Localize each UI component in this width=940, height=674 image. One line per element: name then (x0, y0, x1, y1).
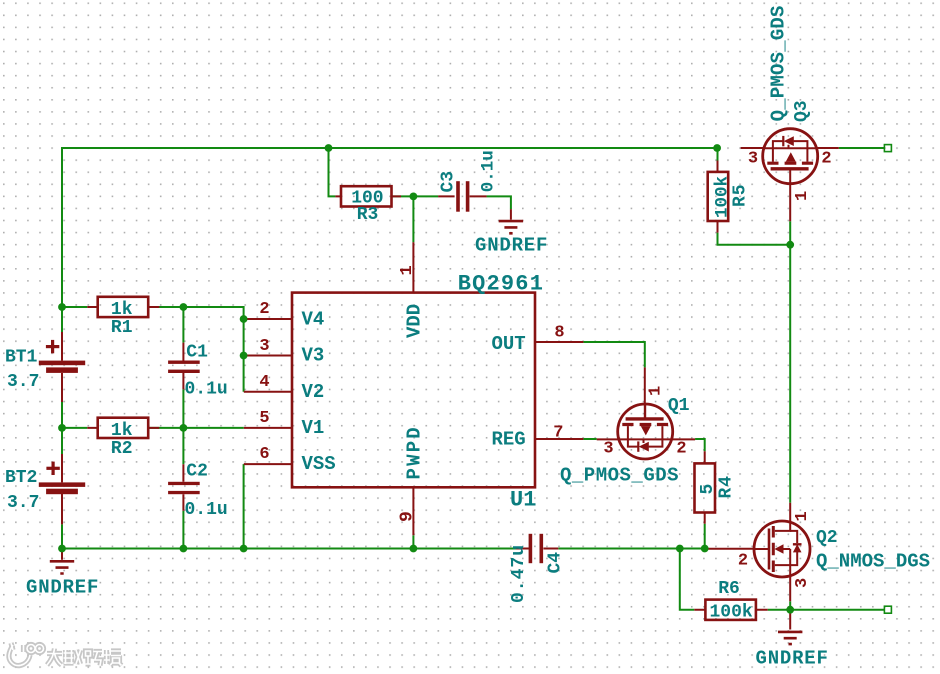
svg-text:100k: 100k (713, 176, 733, 218)
svg-text:1k: 1k (111, 421, 133, 441)
svg-text:V1: V1 (302, 417, 325, 439)
svg-text:1: 1 (793, 191, 812, 201)
svg-text:8: 8 (554, 324, 564, 343)
svg-text:V3: V3 (302, 345, 325, 367)
svg-text:5: 5 (259, 409, 269, 428)
svg-text:3.7: 3.7 (7, 493, 39, 513)
svg-text:C3: C3 (439, 171, 459, 193)
svg-text:Q1: Q1 (668, 396, 690, 416)
svg-text:4: 4 (259, 373, 269, 392)
svg-text:100k: 100k (710, 603, 753, 623)
svg-text:VSS: VSS (302, 453, 336, 475)
svg-text:Q3: Q3 (792, 100, 812, 122)
svg-text:VDD: VDD (404, 304, 426, 338)
svg-text:9: 9 (398, 511, 418, 522)
svg-text:PWPD: PWPD (404, 425, 426, 479)
svg-text:1: 1 (793, 511, 812, 521)
svg-text:0.1u: 0.1u (479, 150, 499, 192)
svg-text:R6: R6 (718, 579, 740, 599)
svg-text:R2: R2 (111, 439, 133, 459)
svg-text:2: 2 (821, 149, 831, 168)
svg-text:REG: REG (492, 429, 526, 451)
svg-text:Q_PMOS_GDS: Q_PMOS_GDS (560, 465, 679, 487)
svg-text:OUT: OUT (492, 333, 526, 355)
svg-text:7: 7 (553, 424, 563, 443)
svg-text:Q2: Q2 (816, 528, 838, 548)
svg-text:C4: C4 (546, 552, 566, 574)
svg-text:Q_NMOS_DGS: Q_NMOS_DGS (816, 551, 930, 573)
svg-text:1: 1 (398, 265, 417, 275)
svg-text:C2: C2 (186, 462, 208, 482)
svg-text:6: 6 (259, 445, 269, 464)
svg-text:1: 1 (647, 386, 666, 396)
svg-text:R3: R3 (357, 205, 379, 225)
svg-text:3: 3 (748, 149, 758, 168)
svg-text:BQ2961: BQ2961 (458, 272, 544, 297)
svg-text:2: 2 (738, 552, 748, 571)
svg-text:R5: R5 (731, 183, 751, 207)
svg-text:V4: V4 (302, 308, 325, 330)
svg-text:0.1u: 0.1u (185, 500, 228, 520)
svg-text:3.7: 3.7 (7, 372, 39, 392)
svg-text:3: 3 (603, 440, 613, 459)
svg-text:3: 3 (259, 337, 269, 356)
svg-text:5: 5 (698, 484, 718, 495)
svg-text:GNDREF: GNDREF (756, 648, 829, 670)
svg-text:2: 2 (259, 300, 269, 319)
svg-text:GNDREF: GNDREF (26, 577, 99, 599)
svg-text:V2: V2 (302, 381, 325, 403)
svg-text:0.47u: 0.47u (509, 544, 529, 603)
svg-text:2: 2 (676, 440, 686, 459)
svg-text:BT2: BT2 (5, 468, 37, 488)
svg-text:3: 3 (793, 578, 812, 588)
svg-text:BT1: BT1 (5, 348, 38, 368)
svg-text:Q_PMOS_GDS: Q_PMOS_GDS (768, 5, 790, 121)
svg-text:R4: R4 (717, 475, 737, 499)
svg-text:C1: C1 (186, 343, 208, 363)
svg-text:GNDREF: GNDREF (475, 235, 548, 257)
svg-text:0.1u: 0.1u (185, 380, 228, 400)
svg-text:1k: 1k (111, 300, 133, 320)
svg-text:R1: R1 (111, 318, 133, 338)
svg-text:U1: U1 (510, 488, 536, 513)
